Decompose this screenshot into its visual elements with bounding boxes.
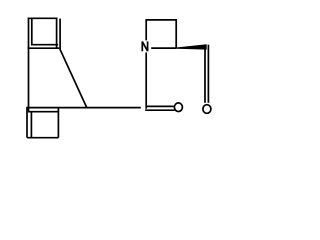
ring B right bond <box>57 108 59 138</box>
atom label N drawn as vector glyph <box>142 41 147 51</box>
ring A left bond extended down as long vertical bond <box>28 18 30 111</box>
ring A bottom bond <box>28 47 60 49</box>
aldehyde C=O double bond left line <box>204 49 206 103</box>
main chain horizontal bond through CH to amide carbonyl <box>27 107 141 109</box>
ring B bottom bond <box>27 137 58 139</box>
ring A inner double-bond line bottom <box>31 44 58 46</box>
amide C=O double bond upper line <box>147 105 174 107</box>
azetidine ring right bond <box>175 20 177 48</box>
N to amide carbonyl C bond <box>145 52 147 108</box>
ring B left outer bond <box>26 107 28 138</box>
aldehyde C=O double bond right line <box>207 45 209 103</box>
ring A outer double-bond line right <box>59 19 61 50</box>
azetidine ring bottom bond from N <box>151 47 176 49</box>
atom label O of amide drawn as vector glyph <box>174 103 182 112</box>
azetidine ring left bond to N <box>145 20 147 41</box>
ring A right bond <box>56 18 58 49</box>
ring B inner double-bond line top <box>28 111 58 113</box>
ring B inner left bond <box>30 112 32 138</box>
ring A inner double-bond line left <box>31 18 33 45</box>
stereo wedge bond from azetidine C2 to aldehyde C <box>176 44 207 49</box>
ring A top bond <box>28 17 58 19</box>
amide C=O double bond lower line <box>145 109 175 111</box>
diagonal C-C bond from ring A to CH <box>60 49 87 108</box>
atom label O of aldehyde drawn as vector glyph <box>203 105 211 114</box>
azetidine ring top bond <box>145 19 177 21</box>
